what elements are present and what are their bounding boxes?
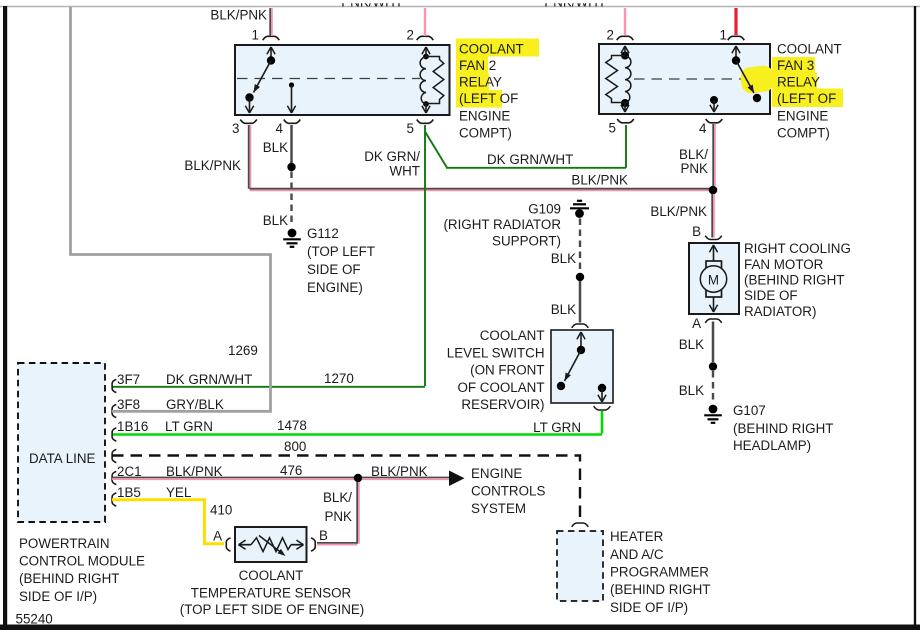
label G109 (RIGHT RADIATOR SUPPORT) [443,202,561,249]
wire BLK dashed from splice to ground G107 [679,371,713,403]
label COOLANT LEVEL SWITCH (ON FRONT OF COOLANT RESERVOIR) [447,328,545,412]
relay K2 pin 2 [407,28,434,43]
svg-text:LEVEL SWITCH: LEVEL SWITCH [447,346,545,361]
heater/AC programmer pin [572,523,589,527]
svg-text:1478: 1478 [277,418,307,433]
svg-text:SIDE OF I/P): SIDE OF I/P) [19,589,97,604]
svg-text:(RIGHT RADIATOR: (RIGHT RADIATOR [443,217,561,232]
label COOLANT TEMPERATURE SENSOR (TOP LEFT SIDE OF ENGINE) [180,568,365,617]
svg-text:(TOP LEFT SIDE OF ENGINE): (TOP LEFT SIDE OF ENGINE) [180,602,365,617]
ground G112 [283,229,301,247]
relay K2 pin 5 [407,120,434,137]
svg-text:A: A [692,316,701,331]
svg-text:BLK: BLK [263,140,288,155]
svg-text:800: 800 [284,439,306,454]
label ENGINE CONTROLS SYSTEM [471,466,545,516]
highlight marker COOLANT FAN 3 RELAY text [739,57,843,107]
label POWERTRAIN CONTROL MODULE (BEHIND RIGHT SIDE OF I/P) [19,536,145,604]
sensor pin B [311,528,328,551]
svg-text:BLK/PNK: BLK/PNK [210,8,267,23]
svg-text:BLK/: BLK/ [323,490,352,505]
svg-text:GRY/BLK: GRY/BLK [166,397,224,412]
PCM pin 3F8 [112,397,224,418]
svg-text:476: 476 [280,463,302,478]
svg-text:BLK: BLK [263,213,288,228]
ground G107 [704,405,722,423]
svg-text:M: M [708,273,719,288]
svg-text:SIDE OF: SIDE OF [744,288,798,303]
relay K3 coil (pins 2-5) [606,46,631,112]
svg-text:COOLANT: COOLANT [777,42,842,57]
label G112 (TOP LEFT SIDE OF ENGINE) [307,226,375,295]
relay K3 switch (pins 1-4) [732,46,761,102]
wire BLK from relay K2 pin 4 to splice [263,125,292,163]
wire BLK/PNK into relay K2 pin 1 [210,8,271,37]
label 1270 on DK GRN/WHT wire [324,371,354,386]
PCM pin 3F7 [112,372,252,393]
module HEATER AND A/C PROGRAMMER body [557,531,603,601]
label COOLANT FAN 3 RELAY (LEFT OF ENGINE COMPT) [777,42,842,141]
relay K2 pin 3 [232,120,257,137]
wire RED into relay K3 pin 1 [734,8,737,35]
splice on circuit 476 [354,474,362,482]
svg-text:2: 2 [607,28,614,43]
svg-text:COOLANT: COOLANT [480,328,545,343]
sensor pin A [213,529,230,552]
svg-text:PNK: PNK [680,161,708,176]
svg-text:DATA LINE: DATA LINE [29,451,96,466]
coolant level switch top pin [572,324,589,328]
PCM pin 1B16 [112,419,213,441]
svg-text:3F7: 3F7 [117,372,140,387]
coolant level switch bottom pin [594,406,611,410]
PCM data line pin [112,449,116,462]
relay K3 COOLANT FAN 3 RELAY body [599,44,770,114]
svg-text:(TOP LEFT: (TOP LEFT [307,244,375,259]
svg-text:(BEHIND RIGHT: (BEHIND RIGHT [733,421,833,436]
svg-text:COMPT): COMPT) [777,125,830,140]
svg-text:TEMPERATURE SENSOR: TEMPERATURE SENSOR [191,586,352,601]
svg-text:WHT: WHT [390,164,421,179]
svg-text:DK GRN/WHT: DK GRN/WHT [166,372,252,387]
svg-text:G107: G107 [733,403,766,418]
label G107 (BEHIND RIGHT HEADLAMP) [733,403,833,453]
wire DATA LINE 800 dashed to heater/AC programmer [112,439,580,521]
svg-text:FAN MOTOR: FAN MOTOR [744,257,824,272]
svg-text:410: 410 [210,503,232,518]
svg-text:BLK/PNK: BLK/PNK [371,464,428,479]
svg-text:1: 1 [252,28,259,43]
svg-text:4: 4 [276,121,284,136]
highlight marker COOLANT FAN 2 RELAY text [456,39,539,108]
PCM pin 1B5 [112,485,191,506]
sensor RT COOLANT TEMPERATURE SENSOR body [235,527,307,562]
svg-text:OF COOLANT: OF COOLANT [457,380,544,395]
relay K3 pin 4 [699,119,722,136]
relay K2 coil (pins 2-5) [420,47,444,113]
motor pin A [692,316,722,331]
svg-text:(LEFT OF: (LEFT OF [459,91,518,106]
wire BLK from motor pin A to splice [679,322,713,363]
svg-text:4: 4 [699,121,707,136]
svg-text:BLK/PNK: BLK/PNK [184,158,241,173]
svg-text:PROGRAMMER: PROGRAMMER [610,565,709,580]
wire PNK/WHT into relay K3 pin 2 (cut at page top) [544,0,625,35]
splice on BLK wire above coolant level switch [576,273,584,281]
svg-text:(LEFT OF: (LEFT OF [777,91,836,106]
svg-text:CONTROL MODULE: CONTROL MODULE [19,554,145,569]
wire GRY/BLK from PCM 3F8 off page top-left [71,7,271,411]
ground G109 [570,201,589,218]
svg-text:3: 3 [232,121,239,136]
svg-text:BLK: BLK [551,302,576,317]
relay K2 switch (pins 1-3) [245,47,275,113]
svg-text:A: A [213,529,222,544]
wire PNK/WHT into relay K2 pin 2 (cut at page top) [341,0,425,36]
wire BLK/PNK 476 from PCM 2C1 to splice [112,463,358,479]
svg-text:PNK: PNK [324,509,352,524]
svg-text:COMPT): COMPT) [459,125,512,140]
relay K2 COOLANT FAN 2 RELAY body [235,45,450,115]
svg-text:DK GRN/WHT: DK GRN/WHT [487,152,573,167]
svg-text:5: 5 [407,121,414,136]
off-page arrow to ENGINE CONTROLS SYSTEM [449,471,465,487]
svg-text:SYSTEM: SYSTEM [471,501,526,516]
relay K3 pin 1 [720,28,745,43]
svg-text:1269: 1269 [228,343,258,358]
svg-text:HEATER: HEATER [610,529,664,544]
svg-text:COOLANT: COOLANT [459,42,524,57]
svg-text:(BEHIND RIGHT: (BEHIND RIGHT [744,273,844,288]
svg-text:5: 5 [609,121,616,136]
svg-text:DK GRN/: DK GRN/ [364,149,420,164]
junction splice BLK/PNK near right cooling fan motor [709,186,718,195]
svg-text:BLK/PNK: BLK/PNK [571,173,628,188]
sensor RT thermistor element [239,536,304,557]
relay K3 pin 4 contact [710,96,718,112]
wire BLK/PNK from junction down to motor pin B [650,194,713,238]
wire BLK/PNK from splice to engine controls system arrow [362,464,449,479]
svg-text:B: B [692,224,701,239]
relay K2 pin 4 [276,120,301,137]
svg-text:RELAY: RELAY [777,75,820,90]
svg-text:RADIATOR): RADIATOR) [744,304,816,319]
svg-text:YEL: YEL [166,485,191,500]
svg-text:RESERVOIR): RESERVOIR) [461,397,544,412]
svg-text:(BEHIND RIGHT: (BEHIND RIGHT [19,571,119,586]
svg-text:RIGHT COOLING: RIGHT COOLING [744,241,851,256]
motor pin B [692,224,722,240]
splice on BLK wire to G107 [709,362,717,370]
svg-text:LT GRN: LT GRN [533,420,581,435]
svg-text:LT GRN: LT GRN [165,419,213,434]
relay K2 pin 4 contact [287,82,295,113]
svg-text:BLK/: BLK/ [679,147,708,162]
label HEATER AND A/C PROGRAMMER (BEHIND RIGHT SIDE OF I/P) [610,529,710,615]
svg-text:ENGINE): ENGINE) [307,280,363,295]
label COOLANT FAN 2 RELAY (LEFT OF ENGINE COMPT) [459,42,524,141]
coolant level switch body [551,330,613,403]
label 55240 diagram number [16,612,53,627]
svg-text:ENGINE: ENGINE [471,466,522,481]
motor M internals [700,245,726,312]
svg-text:BLK/PNK: BLK/PNK [650,204,707,219]
wire BLK dashed from G109 to splice [551,219,580,273]
svg-text:FAN 2: FAN 2 [459,58,496,73]
page top cut mask [10,0,915,3]
wire DK GRN/WHT from relay K2 pin 5 (to relay K3 pin 5 and PCM 3F7) [112,125,626,387]
svg-text:SUPPORT): SUPPORT) [492,234,561,249]
svg-text:1270: 1270 [324,371,354,386]
svg-text:ENGINE: ENGINE [777,109,828,124]
svg-text:BLK: BLK [551,251,576,266]
svg-text:1B5: 1B5 [117,485,141,500]
svg-text:AND A/C: AND A/C [610,547,664,562]
svg-text:1B16: 1B16 [117,419,148,434]
svg-text:G109: G109 [528,202,561,217]
svg-text:CONTROLS: CONTROLS [471,484,545,499]
relay K2 pin 1 [252,28,280,43]
svg-text:COOLANT: COOLANT [239,568,304,583]
PCM pin 2C1 [112,464,223,485]
module U1 POWERTRAIN CONTROL MODULE body [18,363,105,522]
svg-text:1: 1 [720,28,727,43]
svg-text:55240: 55240 [16,612,53,627]
svg-text:FAN 3: FAN 3 [777,58,814,73]
svg-text:(BEHIND RIGHT: (BEHIND RIGHT [610,582,710,597]
wire BLK from splice to coolant level switch [551,281,580,323]
svg-text:BLK: BLK [679,383,704,398]
wire BLK/PNK from relay K2 pin 3 to junction at right fan motor [184,125,713,190]
wire BLK dashed from splice to ground G112 [263,172,292,229]
svg-text:3F8: 3F8 [117,397,140,412]
label DATA LINE [29,451,96,466]
coolant level switch contacts [557,332,606,402]
svg-text:SIDE OF I/P): SIDE OF I/P) [610,600,688,615]
splice on BLK wire at G112 branch [287,163,295,171]
wire BLK/PNK from relay K3 pin 4 to junction [679,124,715,186]
relay K3 pin 5 [609,119,634,136]
svg-text:BLK: BLK [679,337,704,352]
svg-text:RELAY: RELAY [459,75,502,90]
svg-text:POWERTRAIN: POWERTRAIN [19,536,110,551]
wire BLK/PNK from sensor pin B up to splice on 476 [317,482,359,545]
wire LT GRN from coolant level switch to PCM 1B16 [112,411,602,435]
svg-text:ENGINE: ENGINE [459,109,510,124]
svg-text:HEADLAMP): HEADLAMP) [733,438,811,453]
svg-text:2: 2 [407,28,414,43]
svg-text:(ON FRONT: (ON FRONT [470,363,544,378]
wire YEL 410 from PCM 1B5 to coolant temperature sensor pin A [112,500,232,544]
svg-text:G112: G112 [307,226,339,241]
relay K3 pin 2 [607,28,634,43]
svg-text:SIDE OF: SIDE OF [307,262,361,277]
label RIGHT COOLING FAN MOTOR (BEHIND RIGHT SIDE OF RADIATOR) [744,241,851,319]
svg-text:B: B [319,528,328,543]
motor M RIGHT COOLING FAN MOTOR body [689,243,739,314]
